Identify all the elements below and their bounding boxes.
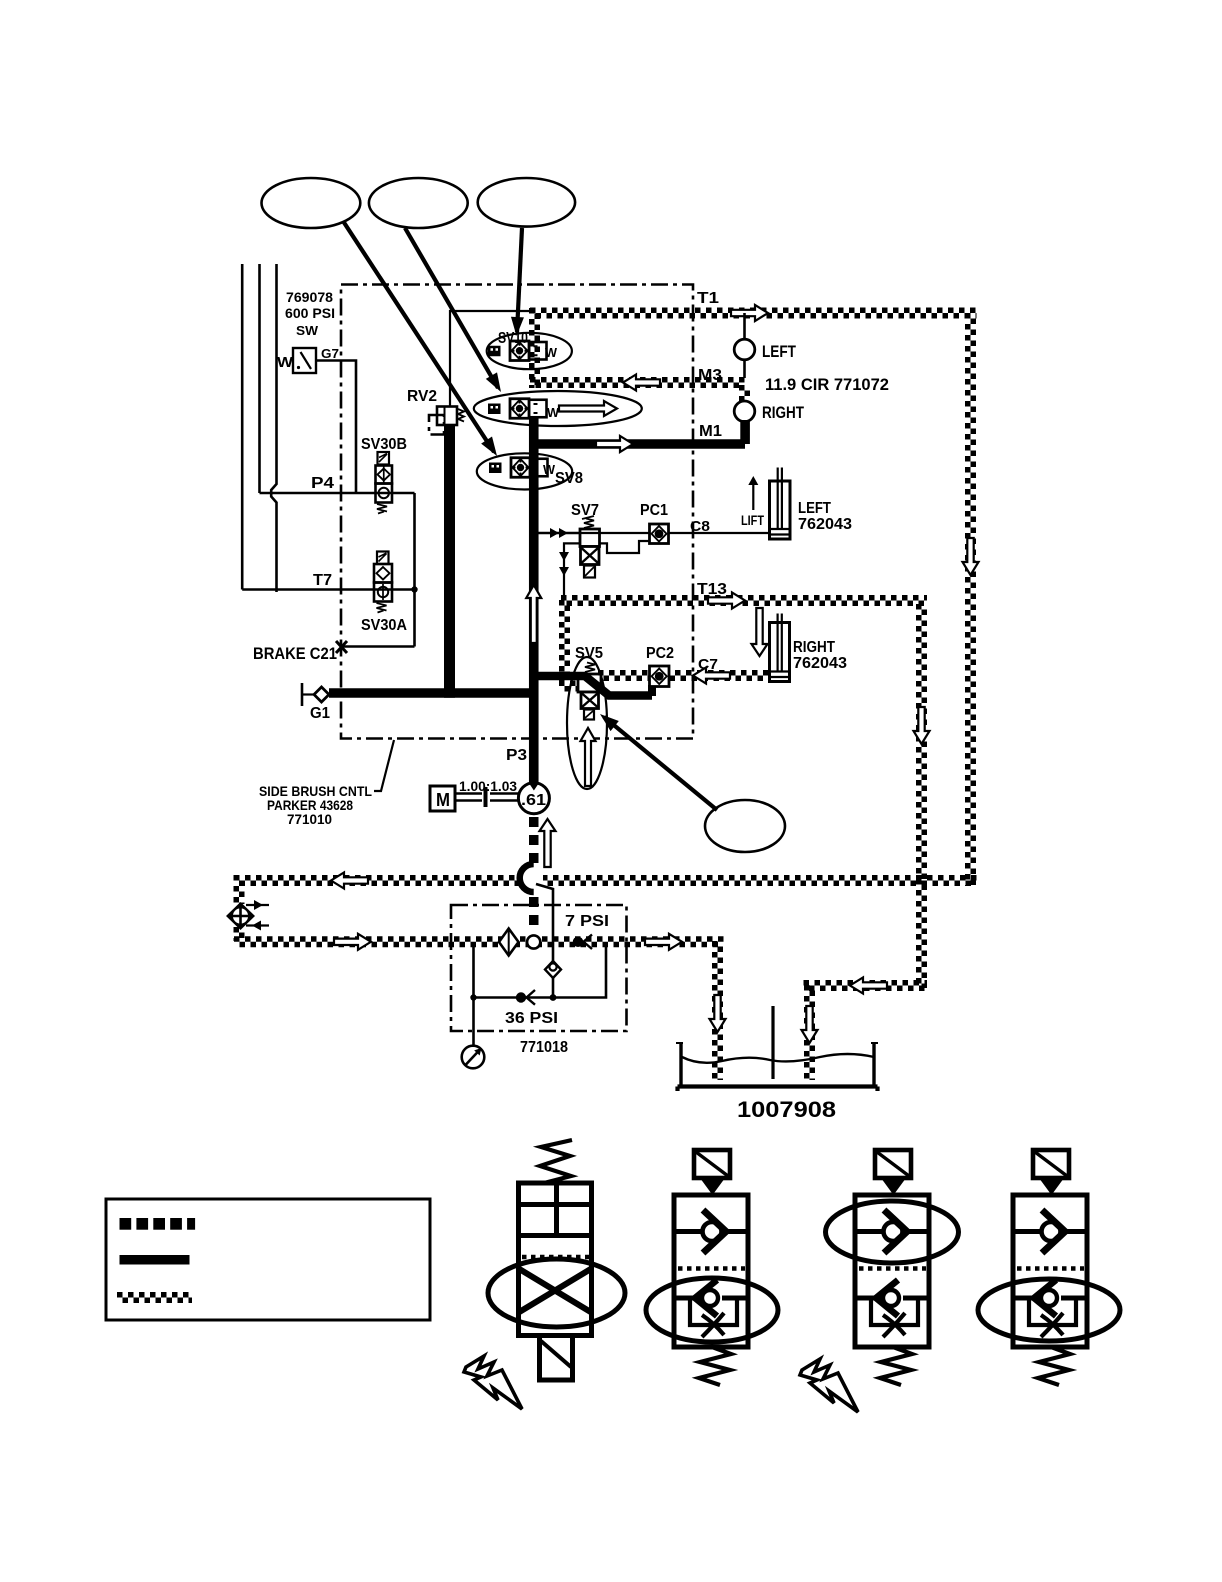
legend box <box>106 1199 430 1320</box>
ellipse marker around SV8 <box>477 453 572 489</box>
detail valve D <box>1013 1150 1087 1385</box>
svg-text:762043: 762043 <box>793 655 847 672</box>
flow arrow on T1 <box>731 305 768 321</box>
svg-text:771010: 771010 <box>287 811 332 827</box>
callout balloon 2 <box>369 178 468 228</box>
svg-text:P4: P4 <box>311 475 334 492</box>
filter box boundary 771018 <box>451 905 627 1031</box>
return line right outer vertical checkered <box>968 313 974 886</box>
manifold boundary SIDE BRUSH CNTL PARKER 43628 771010 <box>341 285 693 739</box>
lightning bolt at valve C <box>800 1359 858 1412</box>
callout leader 1 to SV8 <box>343 221 494 452</box>
svg-text:M3: M3 <box>698 367 722 384</box>
check valve PC1 <box>650 524 669 544</box>
pressure line P3 main vertical thick <box>529 418 539 783</box>
check valve 36 PSI <box>516 990 535 1005</box>
svg-text:W: W <box>547 405 560 420</box>
ellipse marker on valve D lower <box>978 1279 1120 1341</box>
callout leader 3 to SV10 <box>517 228 522 332</box>
ellipse marker on valve B lower <box>646 1278 778 1342</box>
wire G7 from switch to P4 <box>316 361 356 494</box>
feed line to SV7/PC1/C8 <box>539 532 581 535</box>
callout balloon 1 <box>262 178 361 228</box>
svg-text:RV2: RV2 <box>407 388 437 405</box>
checkered stub M3 to right motor <box>742 385 748 401</box>
motor RIGHT <box>734 401 755 422</box>
svg-text:LEFT: LEFT <box>798 500 831 517</box>
return line T13 checkered <box>561 598 927 604</box>
svg-text:C7: C7 <box>698 656 718 673</box>
flow arrow on T13 <box>708 593 745 609</box>
return line M3 checkered <box>530 380 745 386</box>
svg-text:W: W <box>543 462 556 477</box>
thick stub right motor to M1 <box>740 420 750 444</box>
svg-text:.61: .61 <box>521 792 546 809</box>
coupling flow arrows <box>246 904 269 906</box>
suction line dashed segments <box>529 817 539 925</box>
pressure branch to SV5/PC2 thick <box>529 676 652 696</box>
solenoid valve SV8 <box>489 458 548 478</box>
detail valve B <box>674 1150 748 1385</box>
svg-text:W: W <box>277 354 294 371</box>
ellipse marker on valve C upper <box>826 1201 959 1263</box>
svg-text:SV7: SV7 <box>571 502 599 519</box>
fluid level wavy line <box>682 1054 874 1063</box>
callout leader 4 to SV5 <box>604 717 717 810</box>
svg-text:T7: T7 <box>313 572 332 589</box>
solenoid valve SV30B <box>376 452 393 514</box>
callout leader 2 to SV9 <box>405 228 498 388</box>
check valve 7 PSI <box>573 935 592 950</box>
wire left vertical 1 (to T7) <box>241 264 244 590</box>
gauge line and pressure gauge <box>472 998 475 1047</box>
svg-text:SV5: SV5 <box>575 645 603 662</box>
ellipse marker around SV9 <box>474 391 642 426</box>
bypass piping 36 PSI <box>474 947 607 998</box>
svg-text:T13: T13 <box>697 581 727 598</box>
wire SV30 right loop vertical to brake <box>413 493 416 647</box>
electric motor M box <box>430 786 455 811</box>
return line C7 checkered <box>598 673 770 679</box>
callout balloon 4 <box>705 800 785 852</box>
svg-text:600 PSI: 600 PSI <box>285 305 335 321</box>
valve SV7 <box>580 516 600 578</box>
flow arrow on outer return <box>963 538 979 575</box>
drain line SV7 to T13 checkered column <box>559 600 578 689</box>
tank drop column left checkered <box>715 941 721 1080</box>
flow arrow on main vertical <box>526 585 541 643</box>
wire left vertical 3 (crosses P4, ends at T7) <box>271 264 276 592</box>
cylinder LEFT 762043 <box>770 468 791 540</box>
svg-text:1.00:1.03: 1.00:1.03 <box>459 778 517 794</box>
svg-text:PC2: PC2 <box>646 645 674 662</box>
return gallery checkered column at valve bank <box>532 308 538 388</box>
LIFT arrow <box>752 480 754 510</box>
svg-text:M: M <box>436 790 450 810</box>
svg-text:1007908: 1007908 <box>737 1097 836 1122</box>
svg-text:769078: 769078 <box>286 289 333 305</box>
bypass branch from suction <box>536 884 553 962</box>
suction hop over return band <box>521 873 543 888</box>
motor LEFT <box>734 339 755 360</box>
svg-text:PC1: PC1 <box>640 502 668 519</box>
pump .61 <box>518 783 549 814</box>
svg-text:RIGHT: RIGHT <box>762 403 804 422</box>
detail valve A (SV30 type) <box>519 1140 592 1380</box>
return band to tank right checkered <box>804 983 928 989</box>
svg-text:SV30B: SV30B <box>361 436 407 453</box>
pump suction port circle <box>527 935 540 948</box>
svg-text:LEFT: LEFT <box>762 342 796 361</box>
tank drop column right checkered <box>807 985 813 1080</box>
svg-text:762043: 762043 <box>798 516 852 533</box>
svg-text:36 PSI: 36 PSI <box>505 1010 558 1027</box>
flow arrow on M3 <box>623 375 660 391</box>
cylinder RIGHT 762043 <box>770 614 790 682</box>
drain line RV2 thick vertical <box>444 425 455 698</box>
svg-text:G1: G1 <box>310 705 330 722</box>
return band lower checkered through filter box <box>234 939 724 945</box>
SV7 pilot bypass to PC1 <box>600 541 650 553</box>
flow arrow on upper band <box>331 873 368 889</box>
wire C8 to left lift cylinder <box>669 532 770 534</box>
svg-text:SW: SW <box>296 323 319 338</box>
SV7 drain branch with arrowheads <box>564 543 580 597</box>
svg-text:M1: M1 <box>699 423 722 440</box>
wire P4 horizontal <box>260 492 415 495</box>
svg-text:SV10: SV10 <box>498 330 528 347</box>
lightning bolt at valve A <box>464 1356 522 1409</box>
tank baffle / suction tube <box>771 1006 774 1079</box>
pilot line from RV2 to tank gallery <box>450 311 531 407</box>
relief valve RV2 <box>429 407 464 435</box>
pressure line M1 thick <box>529 439 745 449</box>
return line T1 checkered <box>530 310 977 316</box>
flow arrow on right tank band <box>850 978 887 994</box>
wire brake line C21 <box>342 645 415 648</box>
reservoir tank 1007908 <box>676 1042 878 1091</box>
wire T1 to left motor <box>743 313 746 339</box>
ellipse marker on valve A <box>488 1259 625 1327</box>
check valve PC2 <box>650 666 670 687</box>
legend dashed line sample <box>120 1218 196 1230</box>
svg-text:BRAKE C21: BRAKE C21 <box>253 644 337 663</box>
svg-text:11.9 CIR 771072: 11.9 CIR 771072 <box>765 375 889 394</box>
wire left motor to M3 <box>743 360 746 378</box>
ellipse marker around SV10 <box>487 333 572 369</box>
wire left vertical 2 (to P4) <box>258 264 261 493</box>
svg-text:W: W <box>545 345 558 360</box>
port marker X at BRAKE C21 <box>336 641 347 653</box>
svg-text:G7: G7 <box>321 346 339 361</box>
return band upper checkered (to reservoir loop) <box>234 878 977 884</box>
flow arrow on C7 <box>693 668 730 684</box>
return column T13 down checkered <box>919 604 925 988</box>
left breather coupling column <box>236 875 242 941</box>
svg-text:7 PSI: 7 PSI <box>565 913 609 930</box>
svg-text:T1: T1 <box>697 290 719 307</box>
svg-text:RIGHT: RIGHT <box>793 639 835 656</box>
solenoid valve SV10 <box>488 341 547 361</box>
pressure switch SW 769078 600 PSI <box>293 348 316 373</box>
svg-text:C8: C8 <box>690 518 710 535</box>
flow arrow below SV5 <box>581 728 596 786</box>
flow arrow in SV9 ellipse <box>559 401 617 416</box>
pressure line G1 thick <box>329 688 539 698</box>
flow arrow beside suction <box>540 819 556 867</box>
valve SV5 <box>578 663 601 720</box>
solenoid valve SV9 (middle) <box>488 399 547 419</box>
svg-text:SV30A: SV30A <box>361 617 407 634</box>
check valve (small diamond) on bypass <box>545 961 561 978</box>
svg-text:P3: P3 <box>506 747 527 764</box>
svg-text:771018: 771018 <box>520 1039 568 1056</box>
wire T7 horizontal <box>242 588 414 591</box>
legend checkered line sample <box>117 1295 192 1301</box>
legend thick line sample <box>120 1255 190 1265</box>
svg-text:LIFT: LIFT <box>741 512 764 528</box>
svg-text:SV8: SV8 <box>555 470 583 487</box>
ellipse marker around SV5 <box>567 657 607 789</box>
detail valve C <box>855 1150 929 1385</box>
solenoid valve SV30A <box>374 552 392 613</box>
drive shaft coupling <box>456 794 518 801</box>
port G1 with diamond <box>302 683 329 706</box>
callout balloon 3 <box>478 178 575 227</box>
flow arrow on T13 column <box>914 707 930 744</box>
flow arrow on M1 <box>596 436 633 452</box>
coupling symbol (diamond with circle cross) <box>226 902 255 930</box>
node junction T7 loop <box>411 586 417 592</box>
strainer (diamond filter) <box>499 929 519 956</box>
flow arrow down left of right cylinder <box>752 608 768 656</box>
flow arrows on lower band <box>334 934 371 950</box>
